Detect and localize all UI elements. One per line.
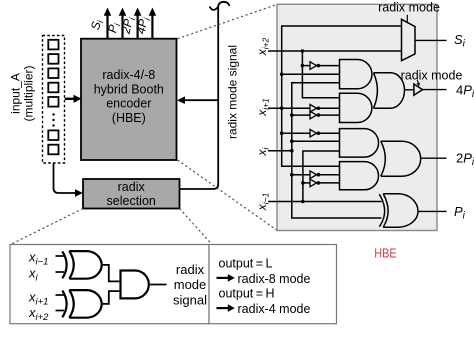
svg-text:radix-4 mode: radix-4 mode bbox=[238, 302, 311, 316]
svg-text:xi: xi bbox=[255, 146, 271, 156]
svg-text:HBE: HBE bbox=[374, 246, 396, 261]
svg-text:hybrid Booth: hybrid Booth bbox=[94, 83, 164, 97]
svg-text:Si: Si bbox=[88, 17, 105, 31]
svg-text:2Pi: 2Pi bbox=[456, 151, 474, 169]
svg-text:(multiplier): (multiplier) bbox=[22, 65, 36, 121]
svg-text:mode: mode bbox=[174, 277, 207, 292]
svg-text:xi+1: xi+1 bbox=[255, 98, 271, 117]
svg-text:radix mode: radix mode bbox=[401, 68, 463, 82]
svg-text:input_A: input_A bbox=[9, 73, 23, 114]
svg-text:radix mode signal: radix mode signal bbox=[226, 45, 240, 139]
svg-text:radix: radix bbox=[118, 180, 146, 194]
svg-text:encoder: encoder bbox=[106, 97, 151, 111]
svg-text:radix-8 mode: radix-8 mode bbox=[238, 272, 311, 286]
svg-text:selection: selection bbox=[107, 194, 156, 208]
svg-text:xi−1: xi−1 bbox=[255, 192, 271, 211]
svg-text:signal: signal bbox=[173, 292, 207, 307]
svg-text:xi+2: xi+2 bbox=[255, 37, 271, 56]
svg-text:(HBE): (HBE) bbox=[112, 111, 146, 125]
svg-text:Si: Si bbox=[454, 32, 466, 50]
svg-text:4Pi: 4Pi bbox=[134, 15, 153, 36]
svg-text:radix mode: radix mode bbox=[378, 1, 440, 15]
svg-text:Pi: Pi bbox=[454, 204, 466, 222]
svg-text:radix: radix bbox=[176, 262, 205, 277]
svg-text:radix-4/-8: radix-4/-8 bbox=[102, 68, 155, 82]
svg-text:output = H: output = H bbox=[219, 287, 275, 301]
svg-text:4Pi: 4Pi bbox=[456, 82, 474, 100]
svg-text:output = L: output = L bbox=[219, 257, 273, 271]
